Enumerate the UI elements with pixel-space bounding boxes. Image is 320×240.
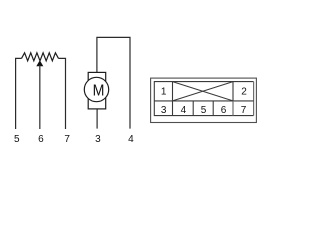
svg-text:2: 2 <box>241 87 247 98</box>
svg-text:M: M <box>93 82 105 99</box>
keyway cross diagonal 2 <box>173 82 234 101</box>
svg-text:5: 5 <box>14 134 20 145</box>
connector inner pin-block rectangle <box>154 82 253 116</box>
svg-text:4: 4 <box>181 105 187 116</box>
motor M1 circle <box>84 77 108 101</box>
potentiometer R1 zigzag element <box>22 53 59 61</box>
wire from motor bottom to terminal 3 <box>96 109 98 129</box>
wiper arrow of potentiometer <box>36 60 43 66</box>
svg-text:7: 7 <box>241 105 247 116</box>
wire from resistor right end to corner <box>59 58 66 129</box>
divider between pin 5 and 6 <box>212 101 214 116</box>
svg-text:3: 3 <box>95 134 101 145</box>
divider between keyway and pin 2 <box>232 82 234 101</box>
connector inner rectangle right edge <box>253 82 255 116</box>
svg-text:1: 1 <box>161 87 167 98</box>
svg-text:6: 6 <box>38 134 44 145</box>
svg-text:4: 4 <box>128 134 134 145</box>
connector row divider <box>154 100 253 102</box>
keyway cross diagonal 1 <box>173 82 234 101</box>
wire from motor top over to terminal 4 <box>97 37 130 128</box>
svg-text:3: 3 <box>161 105 167 116</box>
connector outer housing rectangle <box>151 78 257 122</box>
svg-text:5: 5 <box>201 105 207 116</box>
svg-text:6: 6 <box>221 105 227 116</box>
motor M1 body rectangle <box>88 72 106 109</box>
wire from resistor left end to corner <box>16 58 22 129</box>
divider between pin 1 / keyway and pins 3,4 <box>172 82 174 116</box>
divider between pin 6 and 7 <box>232 101 234 116</box>
divider between pin 4 and 5 <box>192 101 194 116</box>
wire from wiper down to terminal 6 <box>39 66 41 130</box>
svg-text:7: 7 <box>64 134 70 145</box>
